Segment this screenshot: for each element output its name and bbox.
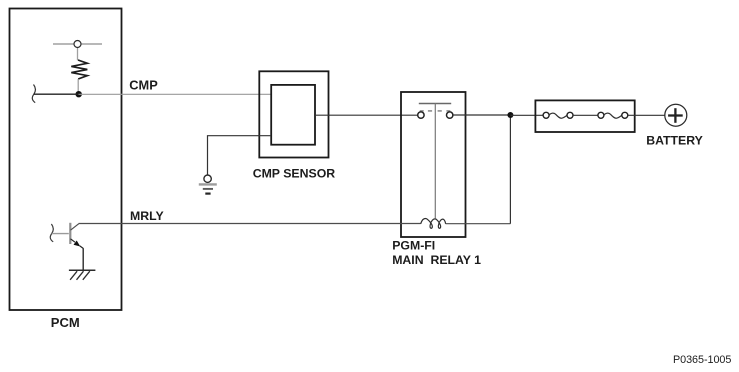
vertical riser wire: [509, 115, 511, 224]
PCM box: [10, 9, 122, 311]
pull-up supply bar (gray): [53, 44, 102, 60]
svg-text:CMP: CMP: [129, 78, 158, 93]
wire junction to fuse 1: [510, 114, 543, 116]
transistor Q base wire (gray): [52, 233, 69, 235]
emitter wire down: [82, 248, 84, 270]
fuse 1 left terminal: [543, 112, 549, 118]
node junction dot on CMP line: [76, 91, 82, 97]
battery symbol: [665, 104, 687, 126]
wire resistor to node: [77, 79, 79, 94]
resistor (pull-up): [71, 60, 87, 79]
connector hook (MRLY base input): [50, 224, 53, 242]
wire sensor output to relay contact: [315, 114, 418, 116]
wire coil to vertical riser: [446, 223, 511, 225]
MRLY wire PCM to relay coil: [79, 223, 421, 225]
relay box PGM-FI MAIN RELAY 1: [401, 92, 466, 237]
wire right contact to junction: [453, 114, 510, 116]
svg-text:BATTERY: BATTERY: [646, 134, 703, 148]
wire CMP node to sensor (gray): [79, 93, 272, 95]
svg-text:MAIN RELAY 1: MAIN RELAY 1: [392, 253, 481, 267]
junction dot: [507, 112, 513, 118]
sensor ground terminal circle: [204, 175, 211, 182]
sensor ground symbol bars: [199, 183, 217, 185]
transistor Q collector: [71, 224, 79, 231]
transistor ground: [69, 269, 96, 271]
transistor Q emitter with arrow: [71, 239, 76, 242]
fuse 2 right terminal: [622, 112, 628, 118]
relay armature stem (gray): [434, 104, 436, 219]
sensor ground wire: [208, 136, 272, 176]
relay armature dashes: [420, 110, 424, 112]
fuse 2 left terminal: [598, 112, 604, 118]
svg-text:CMP SENSOR: CMP SENSOR: [253, 167, 336, 181]
fuse 1 right terminal: [567, 112, 573, 118]
wire fuse box to battery: [628, 114, 665, 116]
fuse 1 element: [549, 113, 567, 118]
wire between fuses: [573, 114, 598, 116]
CMP sensor outer box: [259, 71, 328, 157]
relay coil: [421, 218, 446, 228]
relay contact circle left: [418, 112, 424, 118]
svg-text:PCM: PCM: [51, 315, 80, 330]
svg-text:MRLY: MRLY: [130, 209, 164, 223]
fuse box: [535, 100, 634, 132]
connector hook (CMP input): [32, 85, 35, 103]
transistor Q base bar (gray): [69, 223, 71, 244]
fuse 2 element: [604, 113, 622, 118]
svg-text:PGM-FI: PGM-FI: [392, 238, 435, 252]
relay contact circle right: [447, 112, 453, 118]
pull-up terminal circle: [74, 41, 81, 48]
svg-text:P0365-1005: P0365-1005: [673, 354, 731, 366]
relay armature bar (gray): [419, 103, 451, 105]
CMP sensor inner box: [271, 85, 315, 145]
wire hook to node (black): [34, 93, 79, 95]
